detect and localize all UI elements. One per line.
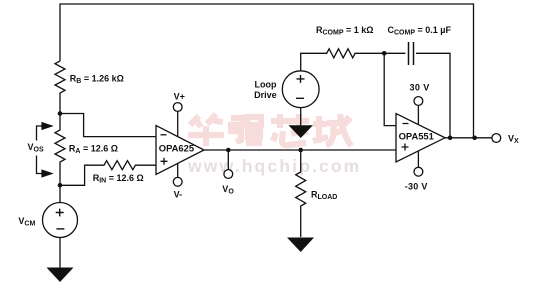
- svg-text:30 V: 30 V: [410, 82, 430, 92]
- svg-text:CCOMP = 0.1 µF: CCOMP = 0.1 µF: [388, 25, 452, 37]
- svg-text:VOS: VOS: [28, 142, 44, 154]
- svg-text:OPA551: OPA551: [399, 131, 434, 142]
- svg-text:VX: VX: [508, 134, 519, 146]
- svg-text:VCM: VCM: [18, 216, 35, 228]
- svg-text:V+: V+: [174, 91, 185, 101]
- svg-text:RA = 12.6 Ω: RA = 12.6 Ω: [69, 144, 118, 156]
- svg-text:RCOMP = 1 kΩ: RCOMP = 1 kΩ: [316, 25, 373, 37]
- svg-text:-30 V: -30 V: [405, 182, 428, 192]
- svg-text:OPA625: OPA625: [159, 143, 194, 154]
- svg-text:VO: VO: [222, 184, 234, 196]
- svg-text:Loop: Loop: [255, 79, 277, 89]
- svg-text:RB = 1.26 kΩ: RB = 1.26 kΩ: [70, 74, 124, 86]
- svg-text:V-: V-: [174, 189, 183, 199]
- svg-text:RIN = 12.6 Ω: RIN = 12.6 Ω: [93, 173, 144, 185]
- svg-text:www.hqchip.com: www.hqchip.com: [187, 156, 361, 176]
- svg-text:RLOAD: RLOAD: [311, 190, 337, 202]
- svg-text:Drive: Drive: [254, 90, 277, 100]
